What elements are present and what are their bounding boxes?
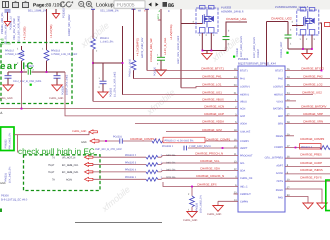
svg-text:SRN: SRN [278,123,283,126]
pin pad 3 [209,28,215,34]
svg-text:ACN: ACN [240,108,245,111]
wire REGN to IC top pin [266,22,268,67]
capacitor C-left [7,72,9,75]
wire [225,40,227,51]
svg-text:CHARGE_CHGOK_N: CHARGE_CHGOK_N [196,174,224,178]
resistor PR6324 [146,155,158,159]
wire SCL row [93,164,146,166]
svg-text:2 33P_0402_50V/U: 2 33P_0402_50V/U [189,145,211,148]
svg-text:CHARGE_UG1: CHARGE_UG1 [202,91,222,95]
junction [21,71,23,73]
capacitor PC6320 (green plates) [157,57,165,60]
ground [213,206,223,212]
junction at VBUS/cap branch [92,62,94,64]
svg-text:LODRV1: LODRV1 [240,85,251,88]
svg-text:BTST1: BTST1 [240,70,248,73]
svg-text:COMP2: COMP2 [274,146,284,149]
svg-text:0.1U_16V_X5R_0402: 0.1U_16V_X5R_0402 [17,15,20,42]
wire PGND to ground [285,189,322,203]
junction [211,50,213,52]
rail BTST1 wire [146,9,148,71]
svg-text:EC_SMB_DA1: EC_SMB_DA1 [62,171,79,174]
svg-text:CHARGE_BATDRV: CHARGE_BATDRV [301,105,327,109]
wire CHARGE_ACP [65,72,238,116]
svg-text:CHARGE_LO1: CHARGE_LO1 [202,82,222,86]
svg-text:HRG_GND: HRG_GND [0,97,13,100]
pin names right column [265,70,284,200]
svg-text:75,87: 75,87 [48,164,55,167]
svg-text:PH2: PH2 [278,78,283,81]
green probe dot [233,56,235,58]
ground [187,212,197,218]
svg-text:0.1U_25V_B_X5R_0201: 0.1U_25V_B_X5R_0201 [13,80,42,83]
gate rail [180,9,182,88]
wire [7,12,9,22]
wire CHARGE_VDDA [135,123,238,125]
wire CHARGE_FETS [285,180,330,182]
wire to ground [206,51,208,54]
ground [156,70,166,76]
svg-text:CHARGE_UADP: CHARGE_UADP [300,161,322,165]
resistor PR6312 stub [21,46,23,50]
svg-text:PC6303: PC6303 [110,87,113,97]
green measurement bracket [326,180,330,211]
edge connector [325,23,330,27]
svg-text:CHARGE_SCL: CHARGE_SCL [200,159,220,163]
watermark [78,20,242,214]
svg-text:ADPT: ADPT [276,165,283,168]
svg-text:PR6336 1: PR6336 1 [125,176,137,179]
svg-text:S31_1SM8_1%: S31_1SM8_1% [100,10,119,13]
svg-text:CHARGE_ILIM: CHARGE_ILIM [202,128,222,132]
svg-text:CMPIN: CMPIN [240,200,248,203]
net connector arrow EC_SMB_CK1 [85,163,93,167]
green tick [0,209,2,213]
svg-text:PR6331: PR6331 [5,172,8,182]
gate wire [181,23,203,25]
wire CHGOK row [93,178,146,180]
svg-text:EC_SMB_CK1: EC_SMB_CK1 [62,164,79,167]
transistor Q PU6302 dashed body [297,8,319,36]
svg-text:V5_SB_VIN_V5A: V5_SB_VIN_V5A [4,24,7,44]
pin names left column [240,70,253,204]
svg-text:0.750W_4.99_V5_0402: 0.750W_4.99_V5_0402 [51,53,78,56]
resistor PR6314 [131,60,136,70]
pin numbers left [234,68,237,202]
svg-text:100P_0402_50V/U: 100P_0402_50V/U [240,36,243,57]
svg-text:CHARGE_UG2: CHARGE_UG2 [271,17,292,21]
NMOS symbol [203,9,214,28]
CMPIN ground drop [217,201,219,205]
wire [287,38,289,49]
svg-text:CHARGE_PROCH_N: CHARGE_PROCH_N [195,151,223,155]
IC body [238,66,285,212]
svg-text:CHARGE_UG1: CHARGE_UG1 [226,17,247,21]
resistor PR6312 [19,50,24,61]
svg-text:PC6347: PC6347 [257,48,260,58]
node wire [288,48,312,50]
ground (PGND) [317,203,327,209]
svg-text:P6300: P6300 [1,195,9,198]
svg-text:PR6324 2: PR6324 2 [125,154,137,157]
svg-text:100P_0402_50V/U: 100P_0402_50V/U [253,37,256,58]
resistor PR6323 [152,139,163,143]
PR6321 label box [300,144,322,149]
resistor PR6321 [320,146,330,150]
svg-text:CHRG_GND: CHRG_GND [183,219,198,222]
svg-text:VR_HOT_N: VR_HOT_N [62,157,76,160]
svg-text:PC6341_100P: PC6341_100P [280,41,283,58]
svg-text:CHRG_GND: CHRG_GND [72,130,87,133]
wire CHARGE_UG2 [285,94,313,96]
svg-text:CHARGE_ACP: CHARGE_ACP [204,112,224,116]
svg-text:B-6-12XT1Q_EC #9.0: B-6-12XT1Q_EC #9.0 [1,198,28,201]
wire CHARGE_EFS [163,182,238,187]
svg-text:CHRG_OK: CHRG_OK [240,177,253,180]
wire V5 rail to PR6313 [46,9,48,50]
svg-text:CHARGE_SDA: CHARGE_SDA [200,166,220,170]
svg-text:AON06R_DFN5.6: AON06R_DFN5.6 [221,10,244,14]
svg-text:HIDRV2: HIDRV2 [274,94,284,97]
wire CHARGE_PRES [285,157,330,159]
resistor PR6336 [146,178,158,182]
wire CHARGE_UG1 [123,94,239,96]
svg-text:CHARGE_PH1: CHARGE_PH1 [202,75,222,79]
capacitor PC6340 (green plates) [223,37,230,40]
wire COMP2 [285,147,320,149]
wire node bus [8,71,27,73]
net connector arrow EC_SMB_DA1 [85,170,93,174]
capacitor PC6303 [102,63,104,81]
wire CHARGE_COMP1 [97,140,119,142]
rail boot cap PC6320 wire [160,9,162,57]
wire CHARGE_BATDRV [285,108,330,110]
wire [92,49,94,101]
svg-text:PR6324 2 +0.2K 0402 5%: PR6324 2 +0.2K 0402 5% [165,140,195,143]
svg-text:0224 5%: 0224 5% [166,176,176,179]
svg-text:0402 5%: 0402 5% [166,161,176,164]
wire PAD to ground [285,197,308,204]
svg-text:CHARGE_COMP1: CHARGE_COMP1 [206,138,231,142]
ground CHRG_GND [4,22,11,27]
junction COMP1 [105,140,107,142]
resistor PR6313 [44,50,49,61]
capacitor plates (clipped) [5,10,11,12]
pin pad 2 [200,28,206,34]
svg-text:CHARGE_COMP1 8: CHARGE_COMP1 8 [130,137,157,141]
svg-text:CHARGE_UG2: CHARGE_UG2 [302,91,322,95]
svg-text:86: 86 [168,3,174,9]
svg-text:1000P_50V_0402: 1000P_50V_0402 [68,14,71,36]
net connector arrow [90,139,99,143]
svg-text:CHARGE_VDDA: CHARGE_VDDA [202,120,224,124]
svg-text:ACOK: ACOK [276,172,283,175]
pin pad 5 [200,6,206,10]
junction [46,71,48,73]
svg-text:PC6331: PC6331 [113,135,123,138]
wire CHARGE_LO1 [181,86,238,87]
capacitor C-right [56,72,58,75]
svg-text:LODRV2: LODRV2 [273,85,284,88]
svg-text:CHARGE_LO2: CHARGE_LO2 [303,82,323,86]
wire SDA row [93,171,146,173]
junction [302,48,304,50]
svg-text:CHRG_GND: CHRG_GND [49,97,64,100]
svg-text:+4.2V(SMPS): +4.2V(SMPS) [136,38,140,56]
svg-text:VSYS: VSYS [276,100,283,103]
svg-text:CHARGE_COMP2: CHARGE_COMP2 [300,137,325,141]
ground [302,54,312,60]
svg-text:1MF_30V_B_47R_0402: 1MF_30V_B_47R_0402 [95,148,122,151]
wire drop [17,135,19,153]
svg-text:ACIN: ACIN [66,179,72,182]
wire from PR6332 [14,132,89,135]
junction [311,48,313,50]
junction EFS/PR6328 [191,186,193,188]
net connector arrow VR_HOT_N [85,155,93,159]
wire CHARGE_BTST2 [285,70,322,72]
svg-text:PH1: PH1 [240,78,245,81]
selection highlight [1,127,14,151]
svg-text:ILIM_HIZ: ILIM_HIZ [240,131,251,134]
pin pad 6 [209,6,215,10]
wire under label [267,21,289,23]
svg-text:CHARGE_FDYS: CHARGE_FDYS [300,175,322,179]
svg-text:V5U_25V_B_X5R: V5U_25V_B_X5R [13,18,16,40]
svg-text:76,87: 76,87 [48,171,55,174]
svg-text:10K_0402_5%: 10K_0402_5% [9,166,12,183]
svg-text:CHARGE_PRES: CHARGE_PRES [300,152,322,156]
svg-text:CHRG_GND: CHRG_GND [207,213,222,216]
resistor PR6326 [146,170,158,174]
svg-text:PR6326 4: PR6326 4 [125,169,137,172]
ground [3,85,13,91]
transistor Q PU6303 dashed body [196,6,218,34]
junction BTST2 [321,70,323,72]
ground [202,54,212,60]
tick [158,19,161,21]
PR6324 value label box [163,137,205,143]
wire under label [226,22,247,36]
ground (PAD) [303,203,313,209]
svg-text:PR6325 3: PR6325 3 [125,161,137,164]
svg-text:4B: 4B [0,38,4,42]
svg-text:IND_C: IND_C [240,186,248,189]
svg-text:PROCHOT: PROCHOT [240,155,253,158]
svg-text:PU5005: PU5005 [117,2,135,8]
svg-text:REGN: REGN [276,135,283,138]
node wire [202,50,226,52]
svg-text:CHARGE_B48_SW: CHARGE_B48_SW [150,38,153,62]
TOOLBAR [0,0,330,10]
source wires down [201,33,203,51]
source wires down [302,35,304,50]
svg-text:ACP: ACP [240,115,245,118]
svg-text:CHARGE_EFS: CHARGE_EFS [197,183,217,187]
capacitor PC6322 (green plates) [28,69,30,74]
svg-text:P9K_0402_5%: P9K_0402_5% [9,132,12,149]
svg-text:VBUS: VBUS [240,100,247,103]
svg-text:SDA: SDA [240,170,245,173]
svg-text:CHARGE_ISENS: CHARGE_ISENS [300,168,323,172]
svg-text:PC6320: PC6320 [153,66,156,76]
highlight box (dashed) [24,155,101,191]
svg-text:PC6333 1: PC6333 1 [162,145,174,148]
svg-text:FETS: FETS [277,180,284,183]
wire to ground [306,49,308,54]
svg-text:4C1: 4C1 [157,14,160,19]
wire CHARGE_UADP [285,166,330,168]
drain rail to BTST2 [320,23,322,71]
wire CHARGE_ILIM [166,131,238,133]
right net labels [300,67,327,180]
svg-text:+4.2V(SB): +4.2V(SB) [49,25,53,38]
svg-text:CHARGE_SRN: CHARGE_SRN [303,120,323,124]
svg-text:SRP: SRP [278,115,283,118]
wire PROCHOT row [93,156,238,180]
wire CMPIN [218,200,238,202]
svg-text:BQ25703RSNR_DFN32_4X4: BQ25703RSNR_DFN32_4X4 [238,61,276,65]
wire COMP filter row [188,147,238,149]
svg-text:BTST2: BTST2 [275,70,283,73]
svg-text:near IC: near IC [0,61,35,72]
svg-text:CHARGE_PH2: CHARGE_PH2 [303,75,323,79]
svg-text:PR6328: PR6328 [196,202,199,212]
wire CHARGE_PH2 [285,78,330,80]
capacitor PC6331 [120,138,123,143]
ground [98,92,108,98]
green probe dot [30,84,32,86]
wire branch to PC6303 and UG1 rail [93,62,123,64]
wire bootstrap cap PC6341 [287,22,289,35]
UG1 rail corner wire [122,26,124,95]
svg-text:GMP_REV_1/GND_0402: GMP_REV_1/GND_0402 [177,35,180,64]
rail VBUS: wire [92,9,94,39]
svg-text:COMP1: COMP1 [240,140,250,143]
svg-text:Page:: Page: [33,3,46,9]
svg-text:VDDA: VDDA [240,123,247,126]
svg-text:CELL_B/TPRES: CELL_B/TPRES [265,156,284,159]
wire CHARGE_LO2 [285,85,330,87]
svg-text:CHARGE_BTST2: CHARGE_BTST2 [301,67,324,71]
rail PH1 wire [133,9,135,60]
pin numbers right [287,68,290,197]
svg-text:PR6314_1_0402: PR6314_1_0402 [128,58,131,77]
svg-text:BATDRV: BATDRV [273,108,283,111]
junction [202,50,204,52]
svg-text:SCL: SCL [240,162,245,165]
junction COMP2 [295,147,297,149]
svg-text:0402 5%: 0402 5% [166,154,176,157]
resistor PR6328 pulldown [191,187,193,197]
svg-text:GND: GND [81,141,87,144]
green probe dot [286,52,288,54]
svg-text:B31_1SM8_1%: B31_1SM8_1% [28,9,47,12]
viewer page edge [75,221,162,223]
svg-text:1000P_2KV_0402: 1000P_2KV_0402 [66,74,69,95]
wire CHARGE_PH1 [134,78,239,80]
svg-text:PR6332: PR6332 [5,139,8,149]
wire CHARGE_SRP [285,115,330,117]
junction COMP filter [222,147,224,149]
svg-text:+4.2V_B_UG1: +4.2V_B_UG1 [164,37,167,55]
resistor PR6325 [146,163,158,167]
left net labels [130,67,231,187]
highlight box (dashed) [1,43,72,104]
capacitor PC6341 (green plates) [285,35,292,38]
svg-text:B4972_1N82_16V: B4972_1N82_16V [141,37,144,58]
wire CHARGE_BTST1 [147,70,238,72]
svg-text:GND: GND [0,182,6,185]
wire CHARGE_SRN [285,123,330,125]
svg-text:1_0402_5%: 1_0402_5% [100,41,114,44]
svg-text:CHARGE_SRP: CHARGE_SRP [303,112,323,116]
svg-text:PC6302: PC6302 [63,8,66,18]
svg-text:100K_0402_5%: 100K_0402_5% [200,194,203,213]
wire CHARGE_VBUS [93,100,238,102]
svg-text:CMPOUT: CMPOUT [240,193,251,196]
svg-text:PAD: PAD [278,197,283,200]
wire CMPOUT stub [234,193,239,195]
svg-text:1U_25V_B_X5R_0402: 1U_25V_B_X5R_0402 [113,71,116,97]
wire CHARGE_ACOK [285,173,330,175]
svg-text:+4.2V(SB): +4.2V(SB) [22,27,26,40]
ground symbol [52,14,59,19]
svg-text:CHARGE_ACN: CHARGE_ACN [204,105,224,109]
svg-text:PC6340: PC6340 [236,47,239,57]
svg-text:PC6326: PC6326 [62,85,65,95]
rail top ticks [91,8,149,10]
svg-text:0402 5%: 0402 5% [166,169,176,172]
svg-text:PR6321 2: PR6321 2 [301,146,313,149]
svg-text:CHARGE_VBUS: CHARGE_VBUS [202,97,224,101]
net connector arrow [89,130,97,134]
svg-text:89 /109: 89 /109 [46,3,62,9]
ground [52,85,62,91]
wire stub [55,9,57,14]
svg-text:0.750W_4.99_V5: 0.750W_4.99_V5 [5,53,25,56]
wire CHARGE_ACN [21,72,23,109]
net connector arrow ACIN [85,177,93,181]
svg-text:Lookup: Lookup [96,3,114,9]
resistor PR6311 [91,39,96,50]
svg-text:+4.2V(CHG): +4.2V(CHG) [169,24,173,40]
svg-text:IADPT: IADPT [240,147,248,150]
svg-text:CHARGE_BTST1: CHARGE_BTST1 [201,67,224,71]
junction [122,62,124,64]
gate wire [292,25,303,27]
svg-text:PGND: PGND [276,189,283,192]
svg-text:HIDRV1: HIDRV1 [240,94,250,97]
